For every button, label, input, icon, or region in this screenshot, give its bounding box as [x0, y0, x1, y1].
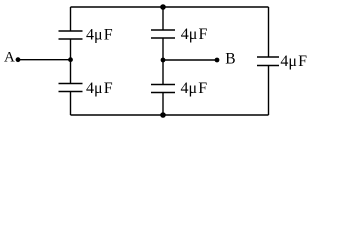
svg-text:4μF: 4μF: [280, 53, 307, 70]
svg-text:A: A: [4, 49, 15, 65]
svg-text:4μF: 4μF: [181, 26, 208, 43]
svg-text:B: B: [225, 51, 235, 68]
svg-text:4μF: 4μF: [181, 80, 208, 97]
svg-text:4μF: 4μF: [86, 80, 113, 97]
svg-text:4μF: 4μF: [86, 27, 113, 44]
